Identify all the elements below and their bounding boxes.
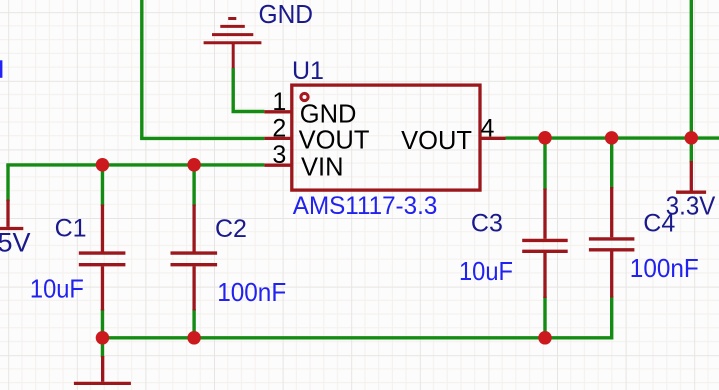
wire: bottom GND symbol stub wire — [101, 338, 104, 358]
wire: bottom GND rail — [102, 336, 611, 339]
capacitor C4 — [589, 187, 635, 298]
partial blue net-label glyph at left edge — [0, 60, 2, 78]
svg-text:1: 1 — [272, 88, 286, 116]
capacitor C3 — [522, 189, 568, 299]
capacitor C1 — [79, 205, 126, 311]
junction dot at C2 bottom — [187, 331, 201, 345]
wire: C1 top lead wire — [101, 165, 104, 206]
svg-text:100nF: 100nF — [630, 253, 699, 283]
regulator U1 body — [292, 85, 480, 190]
svg-text:100nF: 100nF — [217, 277, 286, 307]
wire: GND symbol down to pin 1 — [232, 68, 265, 112]
svg-text:C4: C4 — [643, 210, 675, 238]
svg-text:VOUT: VOUT — [401, 127, 472, 155]
wire: 5V rail vertical corner — [6, 165, 9, 201]
junction dot at C4 top — [605, 131, 619, 145]
svg-text:C2: C2 — [215, 215, 247, 243]
svg-text:C1: C1 — [55, 214, 87, 242]
junction dot at C3 top — [538, 131, 552, 145]
svg-text:AMS1117-3.3: AMS1117-3.3 — [293, 192, 438, 220]
svg-text:GND: GND — [300, 100, 357, 128]
svg-text:4: 4 — [481, 114, 495, 142]
wire: VOUT net horizontal to pin 2 — [140, 137, 264, 140]
wire: C1 bottom lead wire — [101, 309, 104, 338]
svg-text:GND: GND — [259, 1, 314, 29]
junction dot at C1 top — [96, 158, 110, 172]
junction dot at C1 bottom — [96, 331, 110, 345]
wire: 5V rail horizontal to pin 3 (VIN) — [6, 163, 264, 166]
wire: C2 top lead wire — [192, 165, 195, 206]
wire: C4 bottom lead wire — [610, 296, 613, 339]
svg-text:U1: U1 — [292, 57, 324, 85]
capacitor C2 — [171, 205, 218, 311]
pin 2 stub (VOUT left) — [264, 137, 291, 140]
ground symbol (bottom) — [74, 356, 131, 383]
ground symbol (inverted, top) — [204, 19, 262, 69]
power flag 5V — [0, 200, 23, 229]
svg-text:10uF: 10uF — [459, 256, 513, 286]
pin 1 stub (GND) — [264, 110, 291, 113]
wire: VOUT net vertical from top edge at x=141.8 — [140, 0, 143, 138]
pin 4 stub (VOUT right) — [480, 137, 506, 140]
junction dot at 3.3V tap — [685, 131, 699, 145]
wire: VOUT net vertical from top edge at x=691.3 — [690, 0, 693, 138]
pin 3 stub (VIN) — [264, 164, 291, 167]
svg-text:5V: 5V — [0, 228, 31, 258]
wire: C3 top lead wire — [543, 138, 546, 190]
power flag 3.3V — [676, 161, 706, 192]
wire: C2 bottom lead wire — [192, 309, 195, 338]
wire: C3 bottom lead wire — [543, 297, 546, 338]
svg-text:3: 3 — [272, 141, 286, 169]
wire: 3.3V flag lead wire — [690, 138, 693, 163]
svg-text:10uF: 10uF — [30, 273, 84, 303]
wire: VOUT right rail from pin 4 to right edge — [506, 136, 719, 139]
junction dot at C2 top — [187, 158, 201, 172]
svg-text:VIN: VIN — [301, 153, 344, 181]
svg-text:2: 2 — [272, 114, 286, 142]
junction dot at C3 bottom — [538, 331, 552, 345]
pin 1 indicator circle — [301, 93, 308, 100]
svg-text:C3: C3 — [471, 210, 503, 238]
svg-text:VOUT: VOUT — [299, 127, 370, 155]
wire: C4 top lead wire — [610, 138, 613, 189]
